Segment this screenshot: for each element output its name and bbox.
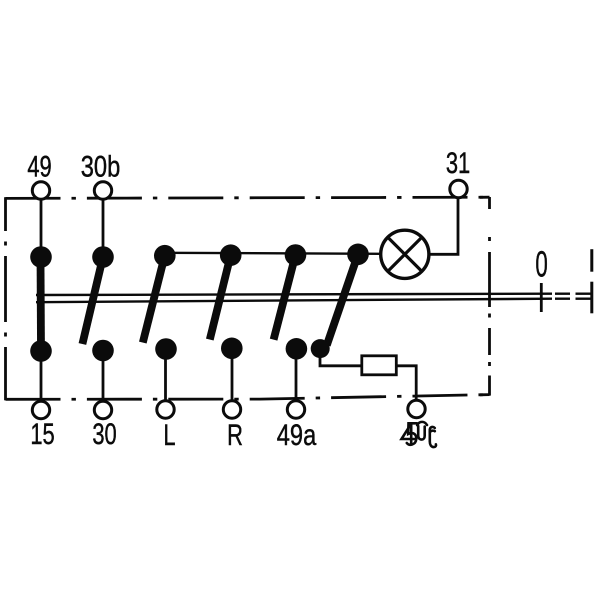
lamp symbol: [381, 230, 429, 278]
enclosure border top (dash-dot): [6, 197, 490, 198]
contact dot bottom L: [155, 338, 177, 360]
svg-text:30: 30: [92, 417, 116, 451]
switch lever 49a (open): [274, 255, 296, 340]
contact dot bottom 49a: [286, 338, 308, 360]
terminal circle 49a: [287, 401, 304, 418]
wire terminal 30b to contact: [102, 196, 105, 252]
terminal circle R: [223, 401, 240, 418]
wire terminal 31 down and left to lamp: [430, 196, 458, 254]
switch lever L (open): [143, 256, 165, 343]
wire terminal 49 to contact: [40, 196, 43, 252]
svg-text:49: 49: [27, 149, 51, 183]
wire bus joining top contacts L R 49a lamp: [164, 253, 381, 254]
wire extra contact to resistor: [320, 349, 362, 366]
wire contact to terminal R: [231, 349, 234, 403]
terminal circle 15: [32, 401, 49, 418]
wire contact to terminal 30: [102, 350, 105, 403]
contact dot top L: [154, 245, 176, 267]
enclosure border bottom right corner stub: [480, 393, 490, 396]
contact dot bottom resistor: [311, 339, 330, 358]
svg-text:49a: 49a: [277, 418, 317, 451]
svg-text:L: L: [163, 418, 175, 452]
contact dot top 49: [30, 246, 52, 268]
actuator end bar upper dash: [590, 249, 593, 272]
terminal circle 30: [94, 401, 111, 418]
svg-text:0: 0: [535, 245, 547, 285]
wire contact to terminal 49a: [295, 349, 298, 403]
actuator tick: [540, 283, 543, 312]
enclosure border right (dash-dot): [488, 197, 491, 396]
svg-text:R: R: [227, 418, 243, 452]
terminal circle 30b: [94, 182, 111, 199]
enclosure border bottom (dash-dot): [6, 395, 490, 400]
contact dot bottom 15: [30, 340, 52, 362]
wire resistor to bottom terminal: [397, 366, 417, 402]
contact dot top R: [220, 244, 242, 266]
svg-text:15: 15: [30, 417, 54, 451]
wire contact to terminal 15: [40, 351, 43, 403]
contact dot bottom R: [221, 338, 243, 360]
contact dot top 30b: [92, 246, 114, 268]
svg-text:31: 31: [446, 146, 470, 180]
wire contact to terminal L: [164, 349, 167, 403]
terminal circle 49-resistor: [408, 400, 425, 417]
switch lever 49-15 (closed): [37, 257, 45, 351]
switch lever 30b (open): [82, 257, 103, 344]
resistor R1: [362, 356, 397, 375]
enclosure border left (dash-dot): [4, 197, 7, 400]
label 49-resistor (garbled print): [402, 422, 437, 447]
actuator dashed link: [555, 294, 591, 299]
terminal circle 49: [32, 182, 49, 199]
svg-text:30b: 30b: [81, 150, 121, 183]
terminal circle L: [157, 401, 174, 418]
actuator end bar: [590, 282, 593, 314]
actuator double line: [36, 294, 552, 303]
switch lever R (open): [210, 255, 231, 340]
contact dot top lamp: [347, 244, 369, 266]
terminal circle 31: [450, 180, 467, 197]
switch lever lamp (closed): [327, 254, 358, 345]
contact dot top 49a: [285, 244, 307, 266]
contact dot bottom 30: [92, 340, 114, 362]
enclosure border top right corner stub: [480, 196, 490, 199]
